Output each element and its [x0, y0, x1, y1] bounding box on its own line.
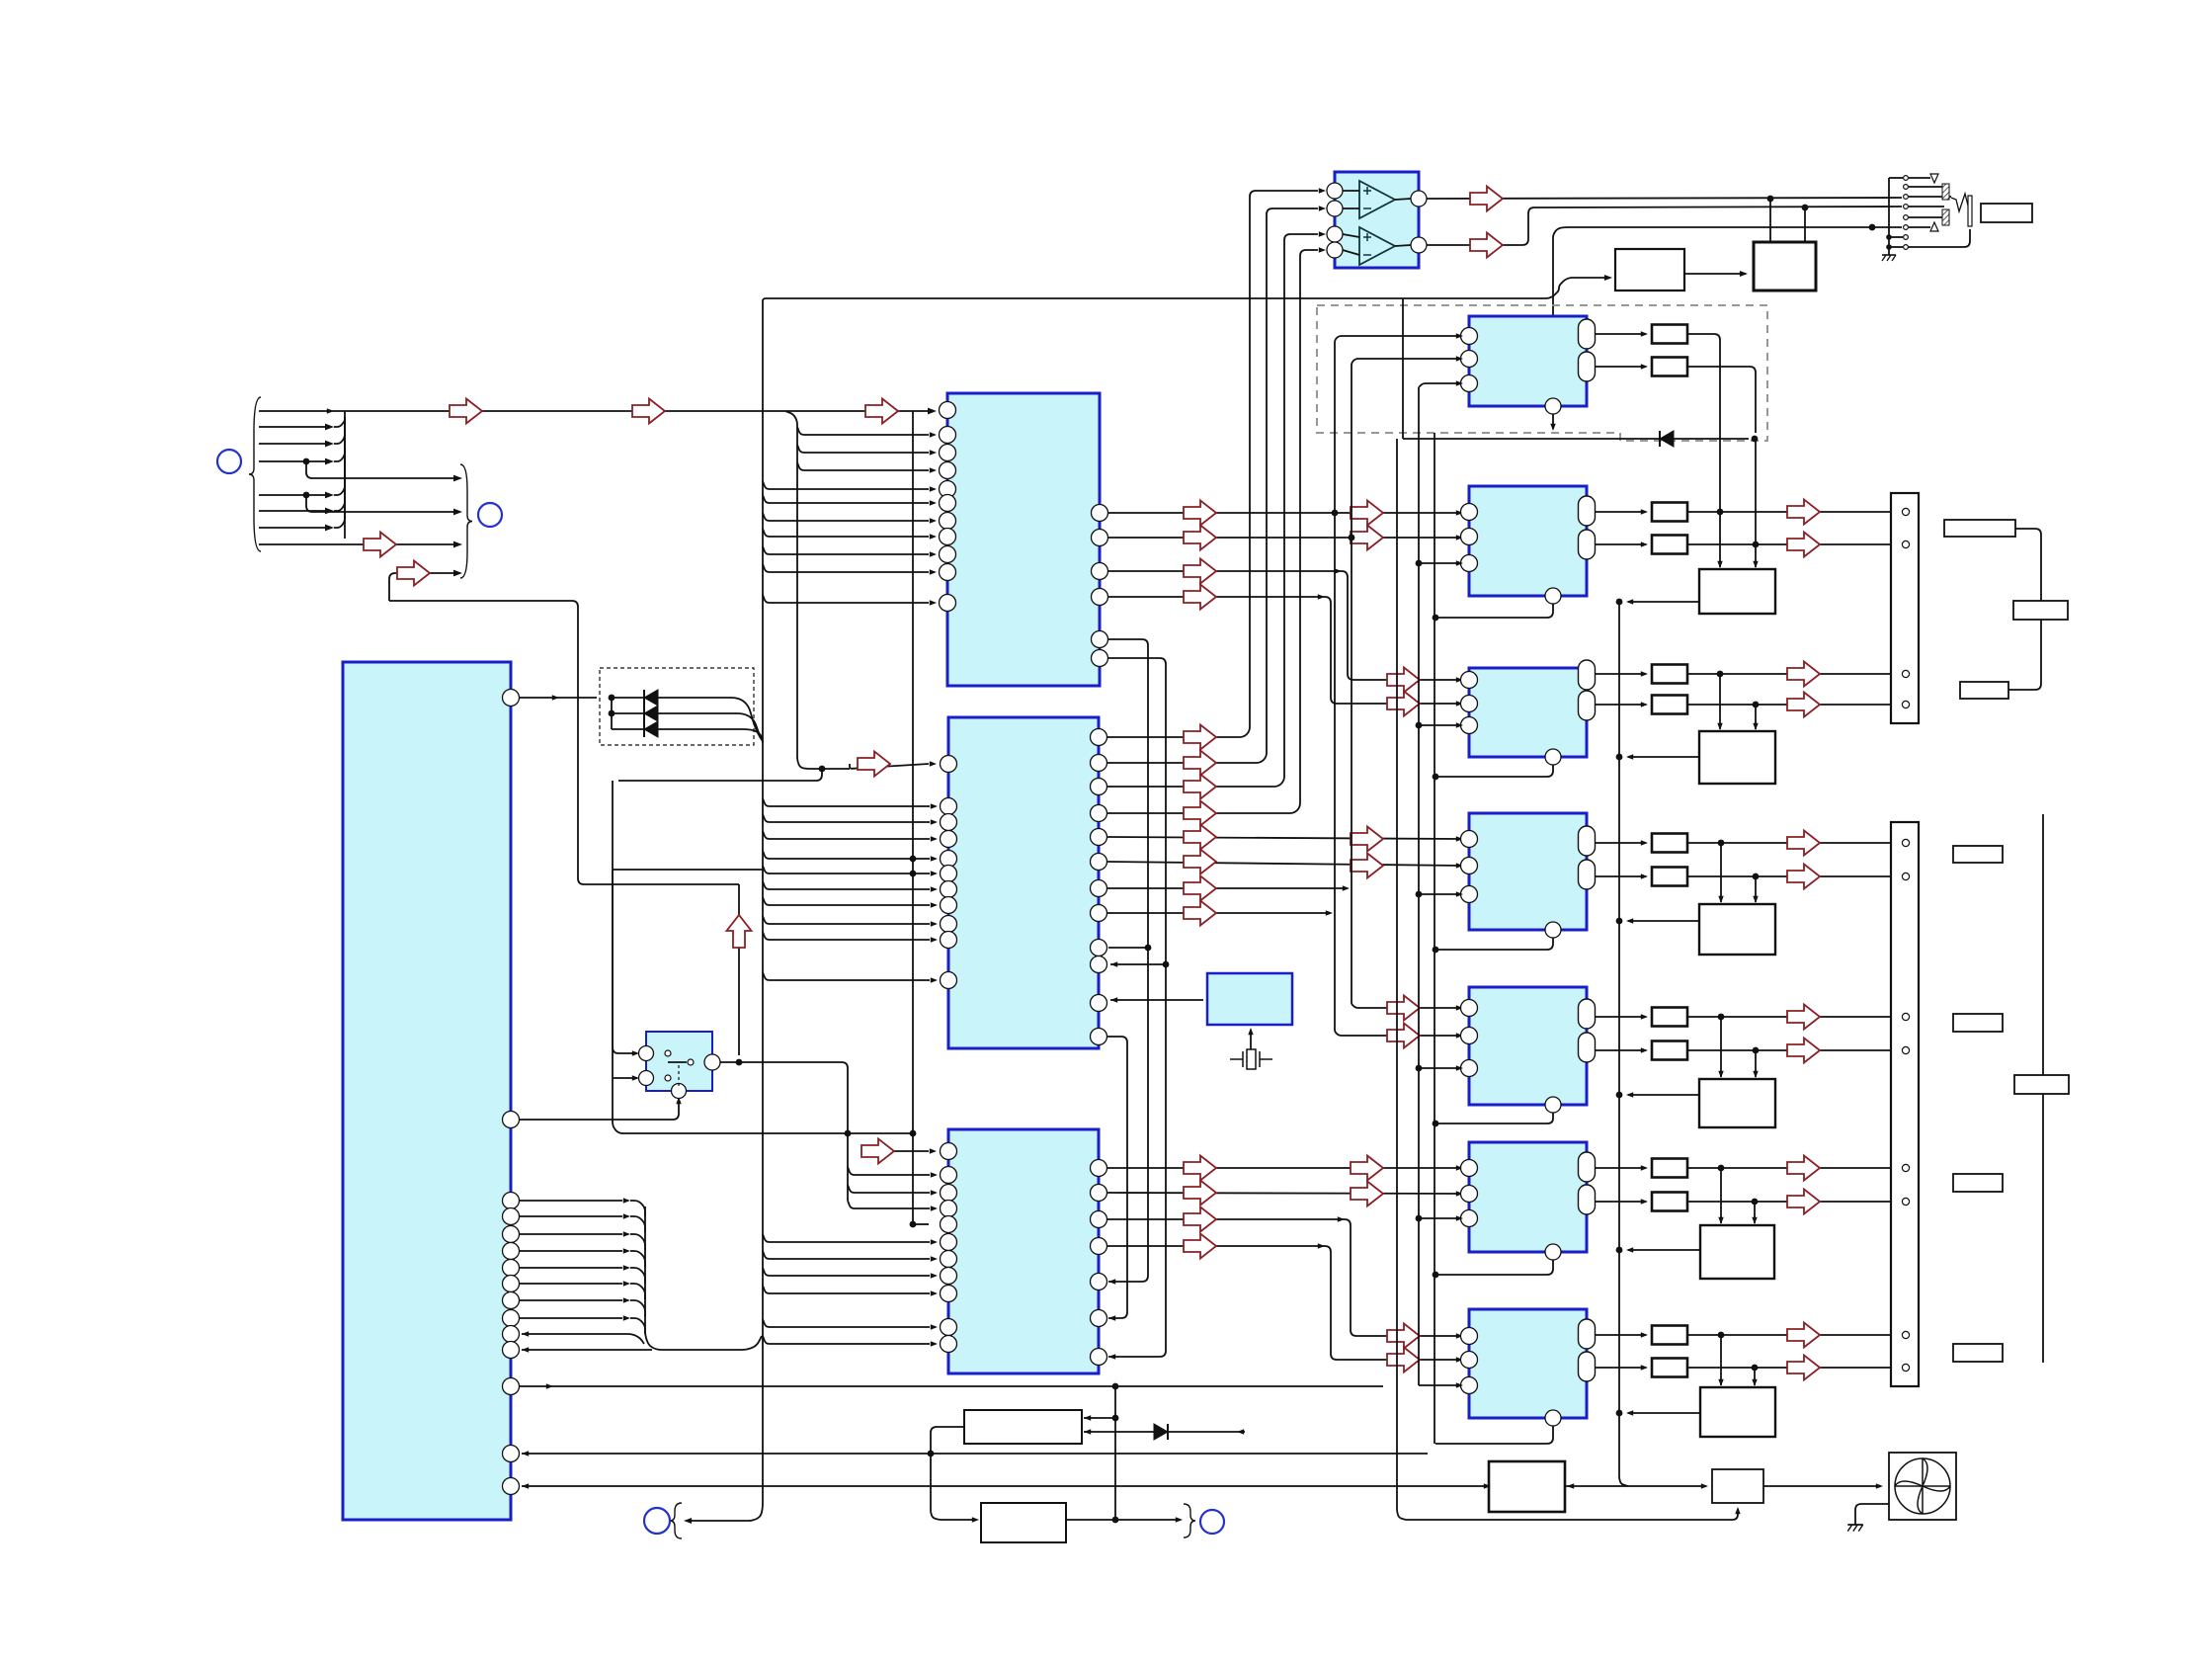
- wire U2 p6 bus: [1108, 658, 1166, 1357]
- wire P3 out: [1628, 756, 1699, 758]
- wire loop bus: [1434, 433, 1435, 1444]
- wire spine-U4 1257: [763, 1234, 930, 1242]
- pin U3 in 773: [941, 756, 957, 773]
- resistor PA3 emitter A: [1652, 665, 1687, 684]
- arrowhead U2 pin 561: [930, 551, 937, 556]
- wire jack p8 around: [1908, 229, 1970, 247]
- signal arrow out 3-713: [1787, 693, 1820, 717]
- pin PA1 bias: [1545, 398, 1561, 414]
- junction bus1639 P5: [1616, 1092, 1623, 1099]
- wire PA6 loop: [1435, 1260, 1553, 1275]
- wire PA1 in1: [1335, 336, 1461, 1028]
- arrowhead U2o3 corner: [1335, 568, 1342, 573]
- junction x1129 b: [1112, 1517, 1119, 1524]
- pin jack 6: [1904, 225, 1909, 230]
- arrowhead conn 6-1216: [1892, 1199, 1899, 1204]
- wire jack gnd: [1888, 247, 1890, 255]
- pin jack 5: [1904, 215, 1909, 220]
- wire A1 in-: [1343, 208, 1359, 209]
- wire R5 in1: [1352, 1001, 1461, 1008]
- wire U4 out3: [1107, 1219, 1461, 1336]
- arrowhead R7a: [1641, 1332, 1648, 1337]
- resistor PA3 emitter B: [1652, 696, 1687, 714]
- arrowhead P4 in1: [1718, 896, 1723, 903]
- junction PA5 1063: [1753, 1047, 1760, 1054]
- pin CN2 1182: [1902, 1164, 1909, 1171]
- signal arrow out 4-887: [1787, 865, 1820, 889]
- connector CN2 speakers B: [1891, 822, 1919, 1386]
- junction front tap L: [1332, 510, 1339, 517]
- wire spine-U3 900: [763, 881, 930, 889]
- wire PA1 outA: [1596, 333, 1646, 335]
- arrowhead U5 211: [1319, 206, 1326, 210]
- signal arrow U3o8: [1184, 901, 1216, 926]
- pin U3 in 916: [941, 897, 957, 914]
- arrowhead U4o4 corner: [1318, 1243, 1325, 1248]
- wire PA4 outA: [1596, 842, 1646, 844]
- wire PA3 outA: [1596, 673, 1646, 675]
- wire A2 out: [1395, 245, 1411, 246]
- arrowhead U1 b1350: [522, 1331, 529, 1336]
- wire PA2 outB: [1596, 543, 1646, 545]
- signal arrow U4o4: [1184, 1234, 1216, 1259]
- wire PA6 outB: [1596, 1201, 1646, 1203]
- wire spine-U2 495: [763, 481, 929, 489]
- wire jack p2: [1909, 186, 1942, 188]
- pin PA3 bias: [1545, 749, 1561, 765]
- wire PA7 line 1351: [1687, 1334, 1897, 1336]
- pin U3 out 872: [1091, 854, 1107, 871]
- wire P7 in1: [1720, 1335, 1722, 1385]
- wire PA7 line 1384: [1687, 1367, 1897, 1369]
- wire PA7 loop: [1435, 1426, 1553, 1444]
- wire branch x807: [785, 411, 808, 769]
- wire x1436 to PA5 p3: [1419, 1067, 1461, 1069]
- wire U2 out1: [1108, 512, 1461, 514]
- arrowhead gather 1215: [623, 1198, 630, 1203]
- wire diode row1-2 link: [611, 698, 613, 713]
- wire PA1 loop: [1552, 414, 1554, 429]
- wire x807-U2 476: [797, 462, 929, 470]
- wire U4 out1: [1107, 1167, 1461, 1169]
- signal arrow group-B-4: [397, 561, 430, 586]
- wire jack p7: [1889, 236, 1903, 238]
- pin U2 in 543: [940, 529, 956, 545]
- wire S1 in1 feed: [613, 870, 637, 1053]
- junction PA6 1182: [1718, 1165, 1725, 1172]
- arrowhead xtal: [1248, 1028, 1253, 1035]
- ic PA6 power amp: [1469, 1142, 1587, 1252]
- wire L3: [259, 443, 326, 445]
- wire protect diode line: [1403, 438, 1749, 440]
- pin U2 out 647: [1092, 631, 1108, 648]
- wire PA5 line 1063: [1687, 1049, 1897, 1051]
- box label SP-A1: [1944, 520, 2015, 537]
- pin U1 r1504: [503, 1478, 520, 1495]
- wire P7 out: [1628, 1412, 1700, 1414]
- arrowhead U4 spine 1343: [931, 1324, 938, 1329]
- junction PA2 518: [1717, 509, 1724, 516]
- arrowhead gather 1299: [623, 1281, 630, 1286]
- junction out2: [1802, 205, 1809, 211]
- junction bus1639 P4: [1616, 918, 1623, 925]
- pin jack 1: [1904, 176, 1909, 181]
- wire B1-B2: [1684, 273, 1746, 275]
- wire PA3 loop: [1435, 765, 1553, 777]
- pin CN2 1351: [1902, 1331, 1909, 1338]
- jack sleeve contact: [1930, 222, 1938, 231]
- pin U3 out 899: [1091, 880, 1107, 897]
- arrowhead spine end: [684, 1518, 692, 1524]
- arrowhead R1a: [1641, 331, 1648, 336]
- pin CN2 1216: [1902, 1198, 1909, 1205]
- signal arrow out 3-682: [1787, 662, 1820, 687]
- junction x1436 1081: [1416, 1065, 1423, 1072]
- pin U1 b1266: [503, 1243, 520, 1260]
- pin U4 out 1207: [1091, 1185, 1107, 1202]
- wire row1504: [522, 1485, 1489, 1487]
- wire L7: [259, 527, 326, 529]
- arrowhead gather 1316: [623, 1297, 630, 1302]
- wire LB1 in1: [1084, 1417, 1115, 1419]
- wire PA2 outA: [1596, 511, 1646, 513]
- arrowhead U3 clk: [1110, 997, 1117, 1002]
- pin PA6 outB: [1579, 1185, 1596, 1214]
- arrowhead U5 253: [1319, 247, 1326, 252]
- arrowhead row1403: [546, 1383, 553, 1388]
- pin CN2 1063: [1902, 1046, 1909, 1053]
- pin CN2 887: [1902, 873, 1909, 879]
- wire U1 b1231: [520, 1215, 622, 1217]
- signal arrow L8: [364, 533, 396, 557]
- wire diode row2-3 link: [611, 713, 613, 729]
- wire PA6 outA: [1596, 1167, 1646, 1169]
- pin CN1 682: [1902, 670, 1909, 677]
- arrowhead conn 5-1029: [1892, 1014, 1899, 1019]
- arrowhead U4 1189: [931, 1172, 938, 1177]
- wire PA3 line 682: [1687, 673, 1897, 675]
- pin U3 out 796: [1091, 779, 1107, 795]
- wire PA5 loop: [1435, 1113, 1553, 1123]
- junction x924 a: [910, 856, 917, 863]
- box protector P6: [1700, 1225, 1774, 1279]
- arrowhead U3 pin 916: [931, 902, 938, 907]
- wire spine-U4 1309: [763, 1286, 930, 1293]
- pin U1 b1299: [503, 1276, 520, 1292]
- wire fan gnd: [1855, 1504, 1889, 1525]
- wire diode row2: [612, 713, 763, 741]
- signal arrow U3o6b: [1351, 854, 1383, 878]
- wire P1 in1: [1719, 563, 1721, 567]
- arrowhead mute: [552, 695, 559, 700]
- ic X1 clock module: [1207, 973, 1292, 1025]
- resistor PA2 emitter A: [1652, 503, 1687, 522]
- wire U4 out4: [1107, 1246, 1461, 1360]
- box protection relay: [1754, 242, 1816, 291]
- node terminal-D: [1200, 1510, 1224, 1534]
- arrowhead fanrelay: [1484, 1483, 1491, 1488]
- wire spine-U3 951: [763, 932, 930, 940]
- box jack label: [1981, 204, 2032, 222]
- junction U3 tap b: [1163, 961, 1170, 968]
- pin U2 in 476: [940, 462, 956, 479]
- pin PA5 in 1020: [1461, 1000, 1478, 1017]
- wire group-B input 4: [389, 573, 456, 601]
- arrowhead PA6 p3: [1456, 1215, 1463, 1220]
- arrowhead R7 pin2: [1456, 1357, 1463, 1362]
- arrowhead PA5 p3: [1456, 1065, 1463, 1070]
- ic PA1 power amp: [1469, 316, 1587, 406]
- wire L7 merge curve: [334, 417, 345, 528]
- dashed box surround channel: [1317, 305, 1767, 441]
- wire U3 out7: [1107, 887, 1344, 889]
- arrowhead U4 pin7: [1108, 1354, 1115, 1359]
- ic S1 selector switch: [646, 1032, 712, 1091]
- pin PA2 outA: [1579, 496, 1596, 526]
- wire L2: [259, 426, 326, 428]
- signal arrow out 7-1351: [1787, 1323, 1820, 1348]
- junction x1129 a: [1112, 1415, 1119, 1422]
- resistor PA5 emitter B: [1652, 1041, 1687, 1060]
- arrowhead D5 line: [1237, 1429, 1244, 1434]
- pin PA6 outA: [1579, 1152, 1596, 1182]
- signal arrow U2o2b: [1351, 526, 1383, 550]
- junction x1436 570: [1416, 560, 1423, 567]
- signal arrow U3o7: [1184, 876, 1216, 901]
- resistor PA1 emitter B: [1652, 358, 1687, 376]
- wire spine-U2 610: [763, 595, 929, 603]
- wire PA4 loop: [1435, 938, 1553, 950]
- diode D1: [644, 690, 658, 706]
- junction loop bus 2: [1433, 615, 1439, 622]
- wire x924-U4 1239: [913, 1223, 929, 1225]
- wire spine-U3 849: [763, 831, 930, 839]
- junction bus1639 P6: [1616, 1247, 1623, 1254]
- wire U3 pin1 line: [850, 764, 929, 769]
- pin U3 out 772: [1091, 755, 1107, 772]
- pin U4 in 1257: [941, 1234, 957, 1251]
- arrowhead P6 in1: [1718, 1217, 1723, 1224]
- ic PA4 power amp: [1469, 813, 1587, 930]
- arrowhead LB2 in: [972, 1517, 979, 1522]
- wire PA5 outA: [1596, 1016, 1646, 1018]
- junction bus1639 P1: [1616, 599, 1623, 606]
- diode D4: [1660, 431, 1674, 447]
- arrowhead PA1 p1: [1456, 333, 1463, 338]
- arrowhead U2 pin 495: [930, 486, 937, 491]
- pin PA2 in 518: [1461, 504, 1478, 521]
- wire L4: [259, 460, 326, 462]
- arrowhead U3 pin 849: [931, 836, 938, 841]
- pin jack 4: [1904, 205, 1909, 209]
- pin U4 in 1223: [941, 1201, 957, 1217]
- wire L4 merge curve: [334, 417, 345, 461]
- ic U5 headphone amp: [1335, 172, 1419, 268]
- pin U1 r1403: [503, 1378, 520, 1395]
- wire spine-U4 1274: [763, 1251, 930, 1259]
- signal arrow U2o1b: [1351, 501, 1383, 526]
- arrowhead U3 pin 816: [931, 803, 938, 808]
- signal arrow U2o4b: [1387, 692, 1420, 716]
- box relay driver: [1615, 249, 1684, 291]
- pin U2 in 495: [940, 481, 956, 498]
- box label SP-A mid: [2013, 601, 2068, 620]
- junction PA7 1351: [1718, 1332, 1725, 1339]
- pin U5 in 211: [1327, 201, 1343, 216]
- wire mute line2: [1866, 226, 1902, 228]
- wire U1 b1249: [520, 1233, 622, 1235]
- junction x832: [819, 766, 826, 773]
- pin PA2 in 543: [1461, 529, 1478, 545]
- arrowhead U3 in976: [1110, 961, 1117, 966]
- wire x858-U4 1189: [848, 1167, 930, 1175]
- wire spine-U3 884: [763, 866, 930, 874]
- wire R1a route: [1687, 334, 1720, 563]
- pin PA4 bias: [1545, 922, 1561, 938]
- arrowhead R4a: [1641, 840, 1648, 845]
- pin U2 in 509: [940, 495, 956, 512]
- pin U3 in 849: [941, 831, 957, 848]
- junction loop bus 5: [1433, 1121, 1439, 1127]
- junction x1436 734: [1416, 722, 1423, 729]
- pin U2 out 519: [1092, 505, 1108, 522]
- pin PA3 in 734: [1461, 717, 1478, 734]
- box temp sensor: [964, 1410, 1082, 1444]
- wire PA4 line 853: [1687, 842, 1897, 844]
- arrowhead U2 pin 509: [930, 500, 937, 505]
- pin CN1 551: [1902, 541, 1909, 547]
- box label SP-B2: [1953, 1014, 2003, 1032]
- signal arrow U3o8b: [1387, 1024, 1420, 1048]
- arrowhead U4o3 corner: [1338, 1216, 1345, 1221]
- wire P6 in2: [1754, 1202, 1756, 1223]
- box fan controller: [981, 1503, 1066, 1542]
- signal arrow U4o3: [1184, 1207, 1216, 1232]
- arrowhead gather 1249: [623, 1231, 630, 1236]
- jack spring: [1951, 194, 1972, 211]
- junction L5 tap: [303, 492, 310, 499]
- pin U4 out 1297: [1091, 1274, 1107, 1290]
- arrowhead U4 spine 1309: [931, 1290, 938, 1295]
- wire bus x924: [912, 411, 914, 1224]
- wire S1 in2 feed: [613, 1077, 637, 1079]
- wire diode line rise: [1402, 298, 1404, 439]
- junction out1: [1767, 196, 1774, 203]
- box label SP-B4: [1953, 1344, 2003, 1362]
- wire xtal up: [1250, 1030, 1252, 1050]
- arrowhead R5 pin2: [1456, 1033, 1463, 1038]
- wire spine-U3 935: [763, 916, 930, 924]
- wire diode row1: [612, 698, 763, 741]
- wire U3 tap b: [1110, 963, 1166, 965]
- arrowhead U4 spine 1291: [931, 1273, 938, 1278]
- arrowhead PA4 p3: [1456, 891, 1463, 896]
- arrowhead LB1 in1: [1084, 1415, 1091, 1420]
- pin U4 in 1165: [941, 1143, 957, 1160]
- pin U5 in 237: [1327, 226, 1343, 242]
- pin PA3 in 712: [1461, 696, 1478, 712]
- arrowhead into group-B 4: [453, 570, 462, 577]
- wire S1 in1 bus: [613, 869, 763, 871]
- arrowhead R6 pin2: [1456, 1191, 1463, 1196]
- arrowhead R2 pin1: [1456, 510, 1463, 515]
- arrowhead bus join 924: [1326, 910, 1333, 915]
- wire U3 out8: [1107, 912, 1327, 914]
- arrowhead U3 pin1: [930, 761, 937, 766]
- pin jack 8: [1904, 245, 1909, 250]
- wire spine-U4 1360: [763, 1336, 930, 1344]
- wire xtal clk: [1110, 999, 1203, 1001]
- arrowhead R2b: [1641, 541, 1648, 546]
- wire U1 b1366: [522, 1349, 652, 1351]
- signal arrow out 6-1182: [1787, 1156, 1820, 1181]
- wire PA1 in2: [1352, 359, 1461, 1001]
- connector CN1 speakers A: [1891, 493, 1919, 723]
- arrowhead row1471: [522, 1451, 529, 1456]
- wire gather curve 1283: [630, 1268, 645, 1284]
- arrowhead gather 1231: [623, 1213, 630, 1218]
- brace terminal-D: [1184, 1504, 1195, 1538]
- arrowhead P5 out: [1626, 1092, 1633, 1097]
- box protector P3: [1699, 731, 1775, 784]
- signal arrow U3o5b: [1351, 827, 1383, 852]
- arrowhead PA3 p3: [1456, 722, 1463, 727]
- wire PA5 line 1029: [1687, 1016, 1897, 1018]
- pin U2 out 544: [1092, 530, 1108, 546]
- pin U1 sw-sense: [503, 1112, 520, 1128]
- wire PA1 in3: [1419, 383, 1461, 387]
- junction PA4 887: [1753, 874, 1760, 880]
- junction PA5 1029: [1718, 1014, 1725, 1021]
- wire x807 to U3 pin1: [808, 768, 850, 770]
- wire PA5 outB: [1596, 1049, 1646, 1051]
- wire spine-U2 561: [763, 546, 929, 554]
- arrowhead L4: [325, 458, 334, 465]
- pin PA3 outA: [1579, 660, 1596, 690]
- arrowhead U2 pin 610: [930, 600, 937, 605]
- signal arrow out 6-1216: [1787, 1190, 1820, 1214]
- pin U1 r1471: [503, 1446, 520, 1462]
- pin U4 in 1207: [941, 1185, 957, 1202]
- wire U1 mute-out: [520, 697, 597, 699]
- wire spine-U2 579: [763, 564, 929, 572]
- wire spine-U2 509: [763, 495, 929, 503]
- wire spine-U3 869: [763, 851, 930, 859]
- pin PA4 outA: [1579, 826, 1596, 856]
- wire A1 out: [1395, 199, 1411, 200]
- wire gather curve 1334: [630, 1318, 645, 1334]
- arrowhead S1 in1: [632, 1050, 639, 1055]
- pin PA7 in 1376: [1461, 1352, 1478, 1369]
- pin U2 out 666: [1092, 650, 1108, 667]
- arrowhead P5 in2: [1753, 1071, 1758, 1078]
- junction loop bus 3: [1433, 774, 1439, 781]
- box label SP-B1: [1953, 846, 2003, 863]
- wire U3 tap a: [1108, 947, 1148, 949]
- signal arrow L1-b: [632, 399, 665, 424]
- junction jack g1: [1886, 234, 1892, 240]
- arrowhead L2: [325, 424, 334, 431]
- arrowhead PA2 p3: [1456, 560, 1463, 565]
- fan M1 blades: [1895, 1458, 1950, 1514]
- pin U2 in 561: [940, 546, 956, 563]
- wire U1 b1316: [520, 1299, 622, 1301]
- junction PA7 1384: [1752, 1365, 1759, 1372]
- wire S1 dash link: [678, 1065, 680, 1087]
- arrowhead U2o4 corner: [1318, 594, 1325, 599]
- contact S1 b: [665, 1075, 671, 1081]
- pin U5 out1: [1411, 191, 1427, 207]
